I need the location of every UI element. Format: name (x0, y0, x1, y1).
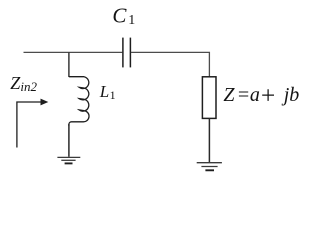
label Z = a + jb (262, 89, 274, 101)
ground (right, under Z) (197, 163, 222, 171)
svg-text:in2: in2 (20, 79, 37, 94)
svg-text:1: 1 (110, 88, 116, 102)
arrow: Zin2 looking-in direction indicator (17, 102, 41, 148)
wire: main horizontal left segment (24, 51, 123, 53)
wire: Z box to ground (208, 118, 210, 162)
label C1 (112, 3, 135, 28)
inductor L1 (69, 77, 89, 126)
svg-text:jb: jb (281, 84, 300, 106)
label L1 (99, 82, 116, 102)
capacitor C1 (123, 38, 130, 68)
ground (left, under L1) (57, 157, 80, 163)
svg-text:a: a (250, 84, 260, 106)
svg-text:1: 1 (128, 13, 135, 28)
svg-text:Z: Z (223, 84, 235, 106)
wire: main horizontal right segment to corner and down to Z box (131, 52, 210, 76)
impedance Z box (202, 77, 216, 119)
node A: junction of inductor branch (68, 52, 70, 77)
svg-text:=: = (237, 84, 251, 106)
wire: inductor to ground (68, 124, 70, 157)
svg-text:C: C (112, 3, 127, 27)
label Zin2 (10, 73, 37, 94)
svg-text:L: L (99, 82, 109, 101)
